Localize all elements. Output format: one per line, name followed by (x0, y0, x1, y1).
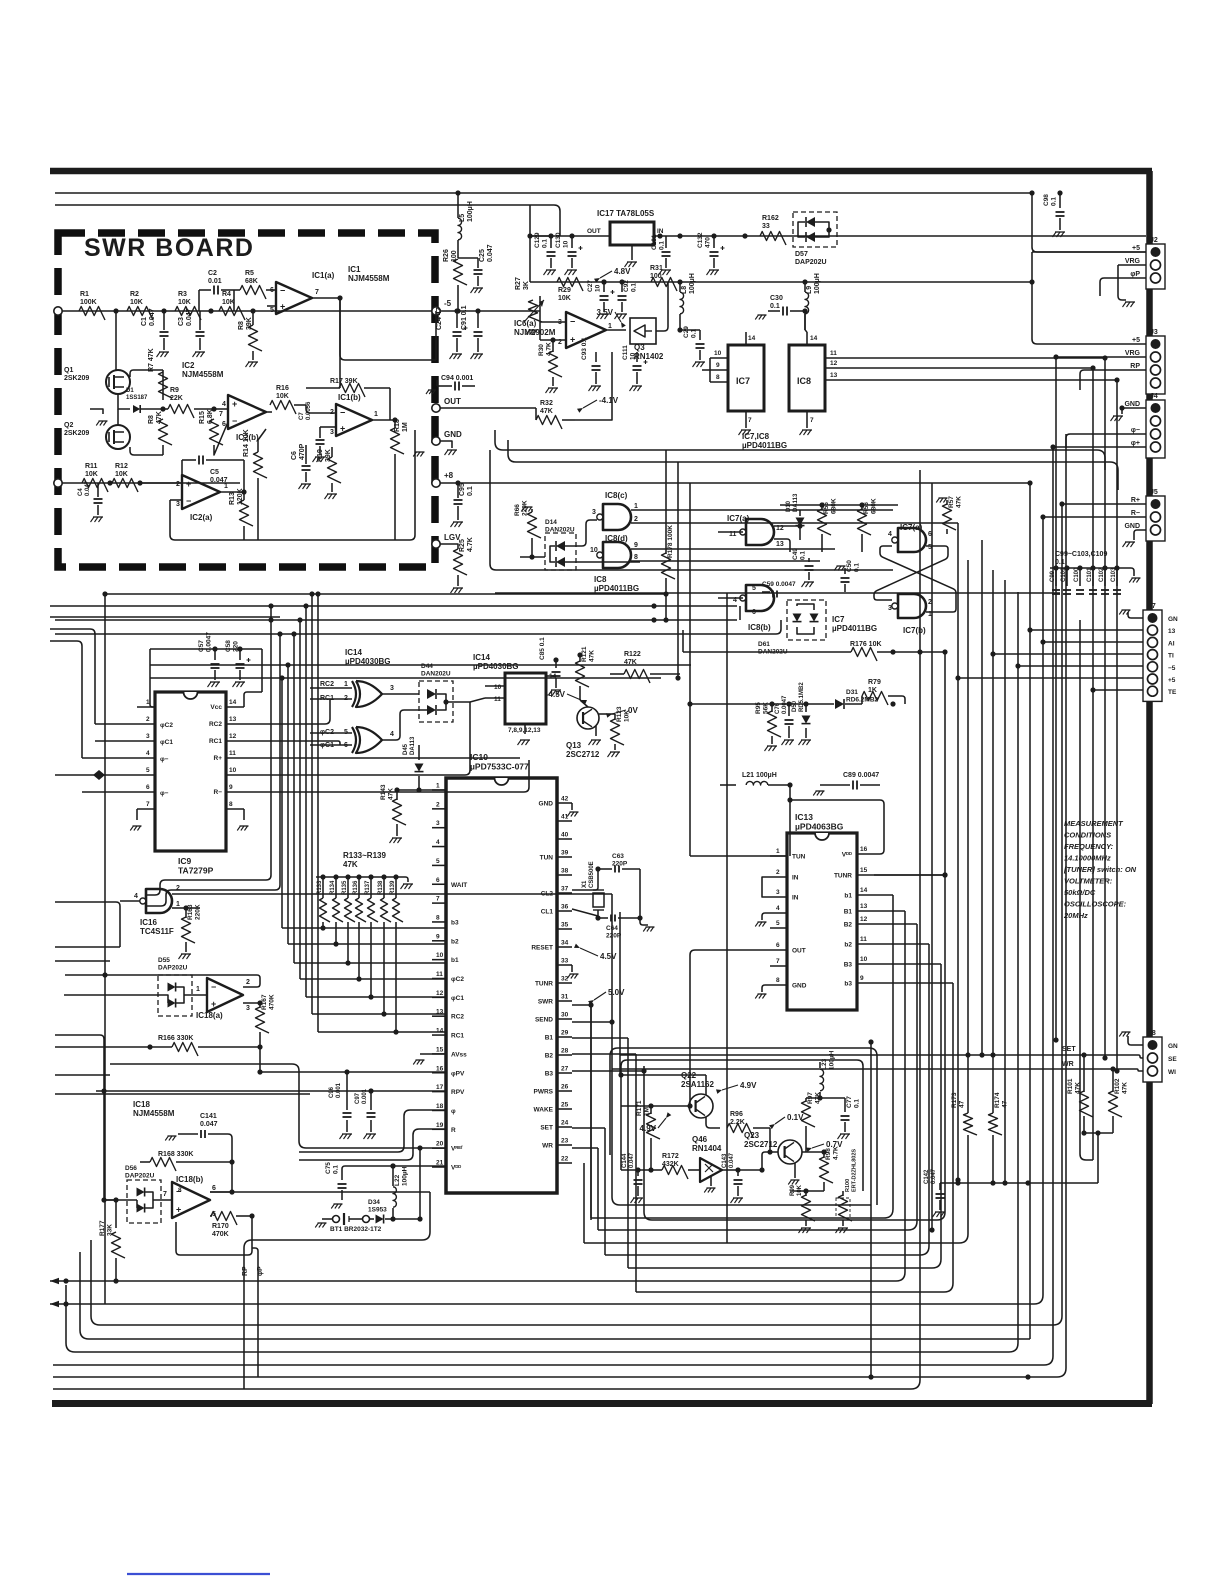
wire (150, 649, 155, 707)
wire (825, 379, 1117, 381)
wire (91, 504, 1062, 1325)
svg-text:C5: C5 (210, 469, 219, 476)
wire (150, 648, 262, 650)
svg-text:TC4S11F: TC4S11F (140, 927, 174, 936)
svg-text:SWR BOARD: SWR BOARD (84, 234, 254, 262)
svg-text:-5: -5 (444, 299, 452, 308)
NAND IC8(b) (746, 585, 774, 611)
wire (819, 1062, 821, 1068)
wire (1079, 568, 1081, 586)
resistor R12 (112, 479, 138, 493)
svg-text:C7: C7 (299, 412, 305, 420)
svg-text:1K: 1K (868, 687, 877, 694)
wire (370, 877, 372, 898)
svg-text:+: + (570, 335, 575, 345)
svg-text:DA113: DA113 (410, 736, 416, 755)
wire (347, 877, 349, 898)
svg-text:1: 1 (146, 699, 150, 706)
wire (259, 1032, 261, 1047)
transistor Q13 (577, 707, 599, 729)
svg-text:3: 3 (390, 685, 394, 692)
svg-text:R18: R18 (394, 419, 401, 432)
wire (432, 978, 446, 980)
svg-text:47: 47 (959, 1100, 966, 1108)
wire (153, 1199, 172, 1201)
svg-text:R14 10K: R14 10K (243, 429, 250, 457)
svg-text:14.10000MHz: 14.10000MHz (1064, 854, 1111, 863)
wire (808, 572, 810, 580)
svg-text:11: 11 (436, 971, 443, 978)
wire (844, 568, 846, 574)
svg-text:25: 25 (561, 1102, 569, 1109)
wire (1018, 665, 1143, 667)
wire (992, 1135, 994, 1183)
svg-text:12: 12 (860, 916, 868, 923)
wire (432, 959, 446, 961)
svg-text:R137: R137 (365, 880, 371, 895)
wire (797, 604, 814, 610)
resistor R176 (851, 648, 877, 662)
svg-text:φ+: φ+ (1131, 440, 1140, 447)
wire (456, 311, 458, 328)
svg-text:R136: R136 (353, 880, 359, 895)
svg-text:RC2: RC2 (451, 1014, 464, 1021)
wire (805, 1191, 807, 1196)
NAND IC8(d) (603, 542, 631, 568)
wire (118, 394, 130, 409)
svg-text:CSB500E: CSB500E (589, 861, 595, 888)
svg-text:0.047: 0.047 (200, 1121, 218, 1128)
wire (310, 744, 352, 746)
wire (341, 1190, 343, 1200)
svg-text:C85 0.1: C85 0.1 (539, 637, 546, 660)
svg-text:NJM4558M: NJM4558M (182, 370, 224, 379)
svg-text:IC2(a): IC2(a) (190, 513, 213, 522)
svg-text:3: 3 (330, 429, 334, 436)
wire (1059, 218, 1061, 230)
wire (50, 911, 905, 1281)
wire (1055, 568, 1057, 586)
wire (299, 1110, 446, 1152)
wire (55, 1093, 310, 1095)
svg-text:10K: 10K (178, 299, 191, 306)
svg-text:IC7: IC7 (832, 615, 845, 624)
svg-text:10K: 10K (797, 1184, 803, 1196)
wire (457, 506, 459, 520)
wire (55, 1074, 110, 1076)
wire (184, 994, 207, 996)
svg-text:−: − (280, 286, 285, 296)
wire (234, 289, 240, 291)
svg-text:J3: J3 (1150, 329, 1158, 336)
wire (689, 483, 691, 704)
wire (571, 965, 573, 972)
wire (432, 902, 446, 904)
wire (259, 1047, 261, 1072)
svg-text:φPV: φPV (451, 1070, 465, 1077)
svg-text:R29: R29 (558, 287, 571, 294)
wire (382, 710, 427, 740)
svg-text:19: 19 (436, 1122, 444, 1129)
svg-text:47K: 47K (343, 860, 358, 869)
svg-text:−: − (340, 408, 345, 418)
svg-text:10K: 10K (85, 471, 98, 478)
resistor R139 (393, 874, 398, 879)
svg-text:0.1: 0.1 (333, 1165, 340, 1174)
wire (612, 894, 871, 1205)
wire (745, 411, 747, 428)
wire (420, 1053, 446, 1055)
svg-text:φC1: φC1 (160, 739, 173, 746)
svg-text:470K: 470K (212, 1231, 229, 1238)
svg-text:C24 47: C24 47 (436, 307, 443, 330)
wire (1055, 357, 1057, 1040)
wire (770, 876, 787, 878)
svg-text:µPD4030BG: µPD4030BG (345, 657, 391, 666)
wire (485, 697, 505, 699)
svg-text:C75: C75 (325, 1162, 332, 1174)
svg-text:42: 42 (561, 796, 569, 803)
SWR board dashed outline (58, 233, 435, 567)
wire (939, 1183, 941, 1190)
wire (457, 193, 459, 218)
wire (805, 1126, 807, 1152)
svg-text:-4.1V: -4.1V (599, 396, 619, 405)
wire (799, 510, 801, 516)
wire (531, 538, 533, 557)
svg-text:C144: C144 (622, 1153, 628, 1168)
wire (490, 450, 893, 570)
wire (137, 723, 155, 725)
wire (718, 597, 743, 599)
capacitor C101 (1090, 565, 1095, 570)
wire IC8c out2 (631, 522, 958, 524)
svg-text:-4.5V: -4.5V (546, 690, 566, 699)
wire (699, 350, 701, 360)
wire (50, 641, 82, 758)
svg-text:+: + (280, 302, 285, 312)
svg-text:R: R (451, 1127, 456, 1134)
wire (55, 620, 781, 634)
svg-text:IC1: IC1 (348, 265, 361, 274)
svg-text:5.0V: 5.0V (608, 988, 625, 997)
wire (53, 470, 920, 1389)
svg-text:100K: 100K (80, 299, 97, 306)
wire (799, 528, 801, 540)
wire (236, 1215, 252, 1217)
wire (993, 653, 1143, 655)
wire (137, 740, 155, 742)
svg-text:B2: B2 (844, 922, 853, 929)
svg-text:11: 11 (860, 936, 867, 943)
wire (340, 298, 436, 360)
svg-text:12: 12 (229, 733, 237, 740)
wire (432, 1147, 446, 1149)
wire (771, 736, 773, 744)
svg-text:RC2: RC2 (209, 721, 222, 728)
wire (239, 670, 241, 680)
svg-text:R2: R2 (130, 291, 139, 298)
svg-text:L21 100µH: L21 100µH (742, 772, 777, 779)
svg-text:TE: TE (1168, 689, 1177, 696)
wire (432, 1053, 446, 1055)
svg-text:C99~C103,C109: C99~C103,C109 (1055, 551, 1107, 558)
wire J2 +5 (1032, 251, 1146, 253)
wire (104, 1199, 137, 1201)
wire (620, 1055, 1143, 1058)
svg-text:C6: C6 (291, 451, 298, 460)
svg-text:OUT: OUT (587, 228, 601, 235)
wire (440, 310, 540, 312)
wire (619, 912, 621, 1075)
wire (117, 409, 119, 425)
svg-text:10K: 10K (115, 471, 128, 478)
svg-text:R170: R170 (212, 1223, 229, 1230)
wire J3 VRG (1056, 356, 1146, 358)
wire (557, 1108, 572, 1110)
wire (96, 1090, 446, 1092)
svg-text:15: 15 (436, 1046, 444, 1053)
svg-text:7: 7 (315, 289, 319, 296)
svg-text:0.1: 0.1 (631, 283, 638, 292)
wire (485, 685, 505, 687)
wire (770, 984, 787, 986)
svg-text:SWR: SWR (538, 999, 553, 1006)
svg-text:R174: R174 (994, 1092, 1001, 1108)
wire (181, 460, 183, 483)
wire (266, 289, 272, 291)
svg-text:1SS187: 1SS187 (126, 395, 148, 401)
svg-text:7: 7 (163, 1191, 167, 1198)
svg-text:14: 14 (748, 335, 756, 342)
svg-text:5: 5 (436, 858, 440, 865)
NAND IC16 (146, 889, 172, 913)
svg-text:R−: R− (1131, 510, 1140, 517)
svg-text:3.5V: 3.5V (597, 308, 614, 317)
wire (394, 454, 396, 462)
svg-text:R176 10K: R176 10K (850, 641, 882, 648)
svg-text:R8: R8 (238, 321, 245, 330)
svg-text:680K: 680K (831, 498, 838, 514)
wire (418, 776, 420, 790)
svg-text:5: 5 (752, 585, 756, 592)
wire (571, 258, 573, 268)
IC17 regulator box (610, 222, 654, 245)
wire (726, 593, 728, 1243)
node -5 (432, 307, 440, 315)
wire (861, 534, 863, 552)
svg-text:432K: 432K (662, 1161, 679, 1168)
wire (1004, 580, 1006, 1183)
wire (341, 1172, 343, 1180)
wire (394, 462, 396, 540)
wire (650, 1106, 652, 1114)
wire (1112, 1116, 1114, 1133)
wire (318, 1031, 446, 1033)
wire (163, 408, 168, 410)
svg-text:36: 36 (561, 904, 569, 911)
wire (768, 310, 780, 312)
svg-text:NJM4558M: NJM4558M (133, 1109, 175, 1118)
wire (874, 546, 948, 600)
wire (50, 616, 280, 618)
svg-text:10: 10 (436, 952, 444, 959)
wire (614, 744, 616, 750)
frame bottom border (52, 1400, 1152, 1407)
wire (170, 499, 182, 501)
wire rail ext (700, 281, 1032, 283)
svg-text:+: + (232, 399, 237, 409)
wire (53, 434, 1066, 1377)
svg-text:37: 37 (561, 886, 569, 893)
wire (552, 377, 554, 386)
wire (146, 606, 271, 895)
wire (395, 922, 397, 1032)
svg-text:1: 1 (224, 483, 228, 490)
wire (392, 1208, 394, 1219)
op-amp IC2(b) (228, 395, 266, 429)
svg-text:R168 330K: R168 330K (158, 1151, 193, 1158)
svg-text:6: 6 (776, 942, 780, 949)
svg-text:PWRS: PWRS (534, 1089, 554, 1096)
wire (342, 1166, 446, 1172)
wire (804, 282, 806, 292)
wire (312, 1013, 446, 1015)
svg-text:0.1: 0.1 (542, 239, 549, 248)
svg-text:10: 10 (595, 284, 602, 292)
wire (437, 694, 446, 710)
wire (305, 472, 307, 482)
svg-text:1: 1 (344, 681, 348, 688)
svg-text:C131: C131 (651, 234, 658, 250)
svg-text:R13: R13 (229, 492, 236, 505)
wire (252, 351, 254, 360)
svg-text:C58: C58 (225, 640, 232, 652)
svg-text:1: 1 (436, 783, 440, 790)
wire (557, 910, 572, 912)
wire (446, 701, 470, 703)
svg-text:R4: R4 (222, 291, 231, 298)
wire (702, 369, 710, 371)
wire (137, 706, 155, 708)
wire (432, 808, 446, 810)
svg-text:R102: R102 (1114, 1078, 1121, 1094)
wire (689, 704, 691, 856)
svg-text:R17 39K: R17 39K (330, 378, 358, 385)
svg-text:7: 7 (748, 417, 752, 424)
wire (226, 757, 244, 759)
wire (579, 686, 581, 700)
wire (210, 1215, 212, 1217)
svg-text:R32: R32 (540, 400, 553, 407)
wire (1083, 1055, 1085, 1092)
wire (1128, 1036, 1143, 1045)
svg-text:4.7K: 4.7K (833, 1146, 840, 1160)
wire (244, 430, 415, 540)
svg-text:R178 100K: R178 100K (667, 525, 674, 558)
svg-text:IC14: IC14 (345, 648, 362, 657)
frame top border (50, 168, 1152, 175)
wire (605, 944, 929, 1255)
wire (432, 1015, 446, 1017)
svg-text:IC6(a): IC6(a) (514, 319, 537, 328)
svg-text:C2: C2 (208, 270, 217, 277)
svg-text:1: 1 (634, 503, 638, 510)
svg-text:23: 23 (561, 1138, 569, 1145)
wire (710, 1176, 712, 1186)
wire (557, 1000, 572, 1002)
capacitor C102 (1102, 565, 1107, 570)
svg-text:R166 330K: R166 330K (158, 1035, 193, 1042)
wire (844, 1122, 846, 1132)
svg-text:0.0056: 0.0056 (306, 401, 312, 420)
wire (55, 1046, 150, 1048)
wire (1059, 193, 1061, 208)
wire (55, 619, 737, 621)
wire (331, 483, 333, 492)
svg-text:R1: R1 (80, 291, 89, 298)
svg-text:2.2K: 2.2K (730, 1119, 745, 1126)
wire (305, 445, 307, 464)
wire (233, 290, 235, 311)
svg-text:µPD4030BG: µPD4030BG (473, 662, 519, 671)
wire (457, 483, 459, 498)
svg-text:13: 13 (436, 1009, 444, 1016)
wire (1066, 568, 1068, 586)
svg-text:470P: 470P (299, 443, 306, 460)
svg-text:ERT-D2ZHL802S: ERT-D2ZHL802S (852, 1149, 858, 1192)
wire (396, 824, 398, 836)
svg-text:R57: R57 (948, 496, 955, 508)
wire L9 to IC8 (804, 311, 806, 330)
wire (992, 570, 994, 1055)
wire (572, 1021, 612, 1023)
op-amp IC1(a) (276, 282, 312, 314)
wire (857, 874, 945, 876)
wire (50, 517, 1043, 1304)
svg-text:NJM4558M: NJM4558M (348, 274, 390, 283)
svg-text:0.047: 0.047 (85, 480, 91, 496)
wire (226, 723, 244, 725)
svg-text:1S953: 1S953 (368, 1207, 387, 1214)
wire (437, 385, 452, 387)
svg-text:68K: 68K (245, 278, 258, 285)
svg-text:4: 4 (436, 839, 440, 846)
wire (457, 240, 459, 258)
svg-text:−: − (211, 982, 216, 992)
svg-text:TUN: TUN (540, 855, 554, 862)
wire (339, 298, 341, 388)
svg-text:WR: WR (1062, 1061, 1074, 1068)
diode D1 (133, 405, 140, 413)
svg-text:12: 12 (830, 360, 838, 367)
transistor Q46 (700, 1158, 722, 1182)
svg-text:IN: IN (792, 875, 799, 882)
wire (770, 855, 787, 857)
wire (595, 726, 597, 736)
svg-text:2: 2 (634, 516, 638, 523)
svg-text:2: 2 (436, 801, 440, 808)
diode pack D55 (158, 975, 192, 1016)
wire (739, 606, 741, 620)
svg-text:8: 8 (436, 914, 440, 921)
svg-text:µPD4011BG: µPD4011BG (832, 624, 877, 633)
wire (640, 918, 648, 925)
svg-text:C99: C99 (1050, 570, 1056, 582)
wire (610, 673, 624, 675)
wire (137, 774, 155, 776)
NAND IC7(b) (898, 594, 926, 618)
